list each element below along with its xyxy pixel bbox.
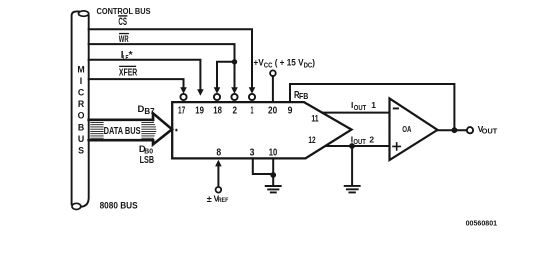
svg-text:1: 1 xyxy=(371,100,376,110)
wire pin 10 to ground xyxy=(272,158,274,185)
svg-text:O: O xyxy=(78,111,85,121)
svg-text:S: S xyxy=(78,145,84,155)
label IOUT 1 xyxy=(351,100,376,112)
DAC chip body (DAC0830 block) xyxy=(172,102,351,158)
svg-text:10: 10 xyxy=(269,146,278,158)
junction dot WR branch xyxy=(232,59,237,64)
op-amp minus sign xyxy=(393,108,399,110)
vertical label MICROBUS xyxy=(77,64,84,155)
label ± VREF xyxy=(207,193,229,204)
svg-text:OUT: OUT xyxy=(354,105,367,112)
svg-text:2: 2 xyxy=(369,134,374,144)
wire op-amp output to VOUT xyxy=(438,129,468,131)
pin 18 terminal circle xyxy=(214,94,220,100)
label DB7 xyxy=(138,104,156,116)
svg-text:9: 9 xyxy=(288,104,293,116)
label XFER (overlined) xyxy=(119,66,138,79)
svg-text:OUT: OUT xyxy=(482,129,498,136)
wire +VCC to pin 20 xyxy=(272,76,274,101)
output terminal circle VOUT xyxy=(467,127,473,133)
svg-text:18: 18 xyxy=(213,104,222,116)
svg-text:1: 1 xyxy=(251,104,254,116)
pin 17 terminal circle xyxy=(180,94,186,100)
svg-text:11: 11 xyxy=(311,114,319,125)
svg-text:XFER: XFER xyxy=(119,67,138,78)
svg-text:CONTROL BUS: CONTROL BUS xyxy=(97,7,152,16)
svg-text:8080 BUS: 8080 BUS xyxy=(100,201,138,212)
ground symbol under pin 10 xyxy=(266,186,281,192)
label IOUT2 xyxy=(351,134,375,146)
svg-text:WR: WR xyxy=(119,34,129,45)
wire ILE from bus to pin 19 xyxy=(89,60,201,89)
svg-text:12: 12 xyxy=(308,135,315,146)
svg-text:±: ± xyxy=(207,194,212,204)
pin 2 terminal circle xyxy=(231,94,237,100)
junction dot feedback/output xyxy=(452,127,458,133)
svg-text:REF: REF xyxy=(218,197,229,204)
svg-text:R: R xyxy=(78,99,85,109)
arrowhead into pin 17 xyxy=(180,87,187,94)
wire WR branch to pin 18 xyxy=(217,62,235,87)
wire VREF into pin 8 xyxy=(217,167,219,188)
svg-text:B7: B7 xyxy=(144,107,155,116)
op-amp plus sign xyxy=(393,143,400,150)
svg-text:I: I xyxy=(80,76,82,86)
arrowhead into pin 2 xyxy=(231,87,238,94)
data bus hatch shading left group xyxy=(91,122,104,138)
svg-text:M: M xyxy=(77,64,84,74)
svg-text:OUT: OUT xyxy=(353,139,366,146)
ground symbol under IOUT2 xyxy=(345,186,360,193)
footnote mark inside chip xyxy=(175,129,177,132)
svg-text:17: 17 xyxy=(178,104,185,116)
wire IOUT2 to ground xyxy=(351,146,353,185)
data bus hatch shading right group xyxy=(142,122,156,138)
arrowhead into pin 19 xyxy=(197,89,204,96)
wire WR main to pin 2 xyxy=(234,62,236,87)
pin 1 terminal circle xyxy=(249,94,255,100)
svg-text:B: B xyxy=(78,122,84,132)
op-amp OA xyxy=(390,98,438,160)
svg-text:LSB: LSB xyxy=(140,155,155,166)
wire IOUT1 from chip pin 11 to op-amp inverting input xyxy=(322,112,389,114)
microprocessor bus cylinder (MICROBUS tube) xyxy=(72,11,89,210)
arrowhead CS into pin 1 xyxy=(249,87,256,94)
wire pin 3 to ground loop xyxy=(253,158,273,174)
label +VCC (+15 VDC) xyxy=(254,57,315,69)
VREF terminal circle xyxy=(216,187,222,193)
data bus fat arrow from bus to chip xyxy=(89,113,172,144)
svg-text:OA: OA xyxy=(402,125,411,134)
label ILE* xyxy=(121,50,133,62)
label WR (overlined) xyxy=(119,33,129,45)
svg-text:2: 2 xyxy=(232,104,237,116)
svg-text:*: * xyxy=(129,50,133,61)
svg-text:3: 3 xyxy=(250,146,255,158)
arrowhead into pin 18 xyxy=(214,87,221,94)
svg-text:U: U xyxy=(78,134,84,144)
label VOUT xyxy=(478,124,498,135)
svg-text:FB: FB xyxy=(299,91,308,101)
power +VCC terminal circle xyxy=(270,70,276,76)
wire CS from bus to pin 1 xyxy=(89,29,252,87)
junction dot pin10/pin3 ground xyxy=(270,172,276,178)
svg-text:19: 19 xyxy=(195,104,204,116)
svg-text:DATA BUS: DATA BUS xyxy=(104,126,141,137)
wire RFB feedback from pin 9 to output node xyxy=(290,84,454,127)
wire WR from bus to junction xyxy=(89,44,235,62)
junction dot on IOUT2 xyxy=(349,143,355,149)
svg-text:CS: CS xyxy=(118,16,127,28)
svg-text:00560801: 00560801 xyxy=(466,221,498,228)
label RFB xyxy=(294,90,308,101)
label CS (overlined) xyxy=(118,15,127,28)
arrowhead VREF pointing up into pin 8 xyxy=(215,160,222,167)
svg-text:8: 8 xyxy=(216,146,221,158)
svg-text:C: C xyxy=(78,88,85,98)
label DB0 xyxy=(139,144,153,156)
wire XFER from bus to pin 17 xyxy=(89,79,184,87)
svg-text:20: 20 xyxy=(268,104,277,116)
wire IOUT2 from chip pin 12 to op-amp non-inverting input xyxy=(326,145,390,147)
